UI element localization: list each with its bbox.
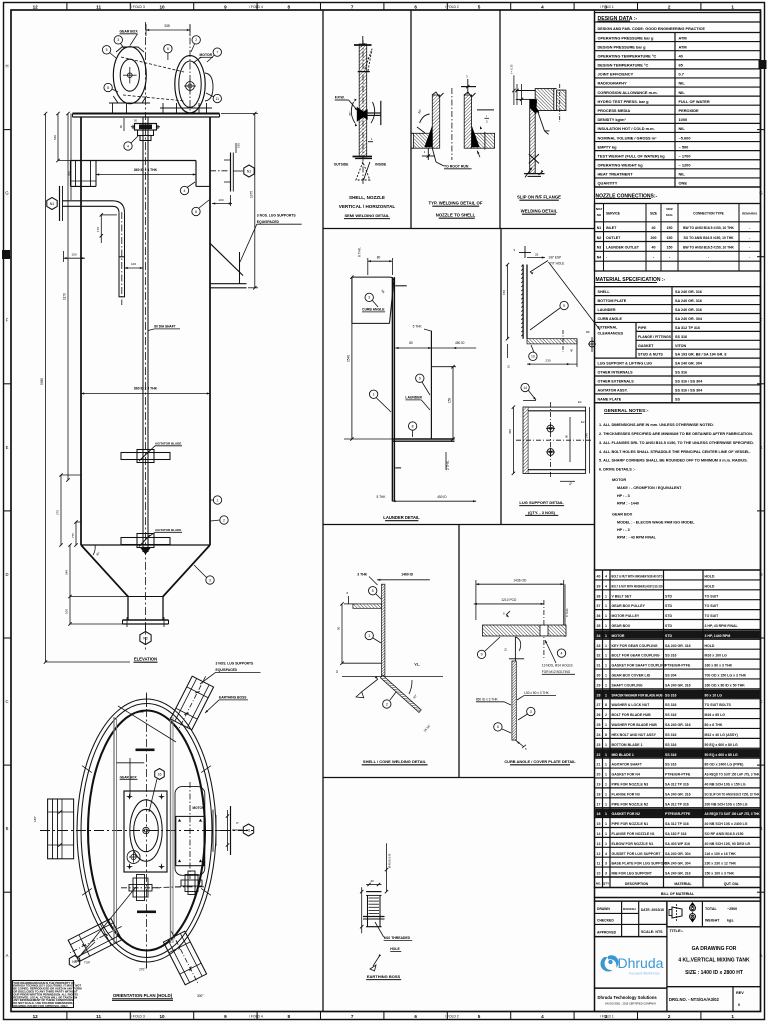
svg-text:3 HP, 1440 RPM: 3 HP, 1440 RPM bbox=[705, 634, 731, 638]
svg-text:NOZ: NOZ bbox=[666, 207, 673, 211]
svg-text:INSIDE: INSIDE bbox=[375, 163, 387, 167]
svg-text:GEAR BOX COVER LID: GEAR BOX COVER LID bbox=[612, 674, 651, 678]
svg-text:CLEARANCES: CLEARANCES bbox=[598, 331, 624, 335]
svg-text:1: 1 bbox=[605, 674, 607, 678]
svg-text:50 EQ x 600 x 80 LG: 50 EQ x 600 x 80 LG bbox=[705, 753, 739, 757]
svg-text:4: 4 bbox=[184, 189, 186, 193]
plan: small tick arrows on rings bbox=[201, 888, 211, 895]
plan: small bolt circle lower-left of gearbox bbox=[127, 851, 140, 864]
svg-text:RAKESH: RAKESH bbox=[623, 907, 636, 911]
svg-text:APPROVED: APPROVED bbox=[597, 931, 617, 935]
plan: lug support bottom-right bbox=[161, 926, 210, 990]
svg-text:DESIGN TEMPERATURE °C: DESIGN TEMPERATURE °C bbox=[598, 63, 649, 68]
svg-text:F: F bbox=[6, 318, 9, 323]
svg-text:SS 316: SS 316 bbox=[665, 693, 677, 697]
svg-text:GASKET FOR N4: GASKET FOR N4 bbox=[612, 773, 640, 777]
svg-text:~ 1200: ~ 1200 bbox=[679, 163, 691, 168]
svg-text:REV: REV bbox=[736, 991, 744, 995]
svg-text:G: G bbox=[759, 191, 762, 196]
svg-text:SA 240 GR. 316: SA 240 GR. 316 bbox=[675, 308, 702, 312]
svg-text:28: 28 bbox=[597, 693, 601, 697]
svg-text:11: 11 bbox=[597, 862, 601, 866]
svg-text:3 NOS. LUG SUPPORTS: 3 NOS. LUG SUPPORTS bbox=[257, 213, 297, 217]
svg-text:CONNECTION TYPE: CONNECTION TYPE bbox=[693, 212, 724, 216]
left zone letters bbox=[4, 129, 12, 131]
svg-text:150: 150 bbox=[71, 252, 76, 256]
svg-text:40 NB SCH 10S x 150 LG: 40 NB SCH 10S x 150 LG bbox=[705, 782, 746, 786]
svg-text:1000: 1000 bbox=[679, 117, 688, 122]
svg-text:38: 38 bbox=[597, 594, 601, 598]
plan: pulley coupling groups bottom bbox=[121, 871, 206, 901]
svg-text:3: 3 bbox=[530, 710, 532, 714]
svg-text:80 DIA SHAFT: 80 DIA SHAFT bbox=[154, 325, 175, 329]
svg-text:SHELL, NOZZLE: SHELL, NOZZLE bbox=[349, 195, 385, 200]
svg-text:t = 6.35: t = 6.35 bbox=[510, 64, 514, 74]
svg-text:SA 240 GR. 316: SA 240 GR. 316 bbox=[665, 683, 691, 687]
svg-text:R6: R6 bbox=[586, 330, 590, 334]
svg-text:-: - bbox=[749, 236, 750, 240]
svg-text:ORIENTATION PLAN (HOLD): ORIENTATION PLAN (HOLD) bbox=[113, 993, 173, 998]
svg-text:FOR M12 BOLTING: FOR M12 BOLTING bbox=[542, 670, 571, 674]
svg-text:TITLE:-: TITLE:- bbox=[670, 928, 684, 933]
svg-text:18: 18 bbox=[597, 792, 601, 796]
svg-text:SPACER WASHER FOR BLADE HUB: SPACER WASHER FOR BLADE HUB bbox=[612, 693, 663, 697]
elevation: lug support bracket right wall bbox=[210, 243, 243, 275]
svg-text:ONE: ONE bbox=[679, 181, 688, 186]
svg-text:CURB ANGLE / COVER PLATE DETAI: CURB ANGLE / COVER PLATE DETAIL bbox=[504, 759, 576, 764]
svg-text:NOMINAL VOLUME / GROSS m³: NOMINAL VOLUME / GROSS m³ bbox=[598, 135, 658, 140]
svg-text:17: 17 bbox=[597, 802, 601, 806]
svg-text:EMPTY kg: EMPTY kg bbox=[598, 144, 618, 149]
elevation: drive belt dashed lines bbox=[121, 57, 184, 72]
svg-text:335: 335 bbox=[164, 24, 170, 28]
svg-text:SA 240 GR. 316: SA 240 GR. 316 bbox=[665, 792, 691, 796]
svg-text:1460 ID: 1460 ID bbox=[401, 573, 413, 577]
svg-text:200 NB SCH 10S x 150 LG: 200 NB SCH 10S x 150 LG bbox=[705, 802, 748, 806]
svg-text:9: 9 bbox=[481, 653, 483, 657]
elevation: shell walls bbox=[80, 117, 82, 545]
svg-text:1: 1 bbox=[731, 5, 734, 10]
svg-text:100: 100 bbox=[65, 609, 69, 614]
svg-text:3: 3 bbox=[209, 578, 211, 582]
plan: diagonal leader across upper circle bbox=[118, 706, 176, 742]
svg-text:24: 24 bbox=[597, 733, 601, 737]
detail: launder detail bbox=[344, 247, 476, 502]
svg-text:BW TO ANSI B16.5 #150, 10 THK: BW TO ANSI B16.5 #150, 10 THK bbox=[683, 246, 734, 250]
svg-text:E: E bbox=[6, 445, 9, 450]
svg-text:OUTLET: OUTLET bbox=[606, 236, 621, 240]
company logo box bbox=[595, 937, 667, 989]
svg-text:kgs.: kgs. bbox=[727, 919, 734, 923]
inlet flange left bbox=[59, 186, 61, 221]
svg-text:16: 16 bbox=[597, 812, 601, 816]
svg-text:300°: 300° bbox=[197, 994, 204, 998]
svg-text:SS: SS bbox=[675, 397, 680, 401]
svg-text:SCALE: NTS: SCALE: NTS bbox=[641, 930, 663, 934]
svg-text:12: 12 bbox=[597, 852, 601, 856]
property note block bottom-left bbox=[13, 981, 83, 1009]
svg-text:BOTTOM PLATE: BOTTOM PLATE bbox=[598, 299, 627, 303]
svg-text:HOLD: HOLD bbox=[705, 575, 715, 579]
svg-text:/ FOLD 4: / FOLD 4 bbox=[249, 1015, 263, 1019]
plan: right nozzle flange stub bbox=[213, 806, 231, 855]
elevation: agitator blade lower bbox=[121, 528, 182, 555]
svg-text:BOLT & NUT WITH WASHER M10x40: BOLT & NUT WITH WASHER M10x40 STD bbox=[612, 575, 663, 579]
svg-text:34: 34 bbox=[597, 634, 601, 638]
svg-text:SHELL: SHELL bbox=[598, 290, 611, 294]
svg-text:HP : - 3: HP : - 3 bbox=[617, 494, 630, 498]
plan: motor rounded rect bbox=[175, 787, 205, 876]
svg-text:RADIOGRAPHY: RADIOGRAPHY bbox=[598, 81, 628, 86]
svg-text:12: 12 bbox=[33, 1014, 39, 1019]
svg-text:860 ID x 3 THK: 860 ID x 3 THK bbox=[134, 168, 158, 172]
detail: shell nozzle seam welding bbox=[334, 36, 387, 185]
svg-text:TO SUIT: TO SUIT bbox=[705, 614, 720, 618]
svg-text:1: 1 bbox=[605, 773, 607, 777]
svg-text:BASE PLATE FOR LUG SUPPORT: BASE PLATE FOR LUG SUPPORT bbox=[612, 862, 669, 866]
svg-text:270°: 270° bbox=[139, 968, 146, 972]
elevation: right dim chain 1975 bbox=[254, 114, 256, 288]
elevation: top plate bbox=[73, 113, 220, 115]
svg-text:MODEL : - ELECON WAGE PAM IGO: MODEL : - ELECON WAGE PAM IGO MODEL bbox=[617, 521, 695, 525]
svg-text:240: 240 bbox=[584, 433, 588, 438]
elevation: inlet dip pipe N1 with elbow bbox=[62, 200, 113, 202]
svg-text:M10 THREADED: M10 THREADED bbox=[384, 936, 411, 940]
svg-text:4: 4 bbox=[561, 651, 563, 655]
svg-text:HOLD: HOLD bbox=[705, 584, 715, 588]
svg-text:45: 45 bbox=[570, 348, 574, 352]
svg-text:4: 4 bbox=[541, 1014, 544, 1019]
svg-text:GA DRAWING FOR: GA DRAWING FOR bbox=[692, 946, 737, 952]
plan: outer rings bbox=[77, 699, 216, 962]
svg-text:RPM : - 43 RPM FINAL: RPM : - 43 RPM FINAL bbox=[617, 536, 657, 540]
svg-text:INSULATION HOT / COLD m.m.: INSULATION HOT / COLD m.m. bbox=[598, 126, 655, 131]
plan: centre lines bbox=[146, 694, 148, 968]
dim 100 below elbow bbox=[125, 267, 144, 269]
svg-text:1975: 1975 bbox=[249, 191, 253, 198]
svg-text:450: 450 bbox=[508, 429, 512, 434]
svg-text:WEIGHT: WEIGHT bbox=[705, 919, 720, 923]
elevation: stuffing box gland bbox=[135, 124, 157, 131]
svg-text:SS 316 / SS 304: SS 316 / SS 304 bbox=[675, 380, 703, 384]
svg-text:N2: N2 bbox=[597, 236, 602, 240]
svg-text:SS 316: SS 316 bbox=[665, 713, 677, 717]
svg-text:NOZZLE TO SHELL: NOZZLE TO SHELL bbox=[436, 213, 476, 218]
svg-text:6. DRIVE DETAILS :-: 6. DRIVE DETAILS :- bbox=[599, 468, 636, 472]
svg-text:E3: E3 bbox=[578, 400, 582, 404]
detail: shell cone welding detail bbox=[335, 573, 443, 733]
svg-text:DESCRIPTION: DESCRIPTION bbox=[625, 882, 649, 886]
elevation: agitator blade upper bbox=[121, 442, 182, 463]
svg-text:40: 40 bbox=[370, 879, 374, 883]
svg-text:/ FOLD 3: / FOLD 3 bbox=[131, 5, 145, 9]
svg-text:OTHER INTERNALS: OTHER INTERNALS bbox=[598, 371, 634, 375]
svg-text:SS 316: SS 316 bbox=[665, 753, 677, 757]
elevation: left dim chains bbox=[45, 114, 47, 663]
svg-text:230 x 230 x 12 THK: 230 x 230 x 12 THK bbox=[705, 862, 737, 866]
svg-text:80 OD x 2400 LG (PIPE): 80 OD x 2400 LG (PIPE) bbox=[705, 763, 744, 767]
svg-text:10: 10 bbox=[507, 364, 511, 368]
svg-text:Dhruda Technology Solutions: Dhruda Technology Solutions bbox=[598, 995, 658, 1000]
bill of material banner bbox=[595, 888, 761, 898]
svg-text:36: 36 bbox=[597, 614, 601, 618]
svg-text:11: 11 bbox=[96, 5, 101, 10]
detail: curb angle cover plate detail bbox=[474, 578, 575, 751]
svg-text:WASHER & LOCK NUT: WASHER & LOCK NUT bbox=[612, 703, 651, 707]
svg-text:/ FOLD 3: / FOLD 3 bbox=[131, 1015, 145, 1019]
svg-text:11: 11 bbox=[96, 1014, 101, 1019]
svg-text:8: 8 bbox=[288, 5, 291, 10]
elevation: drive support posts bbox=[112, 103, 114, 114]
svg-text:HEX BOLT AND NUT ASSY: HEX BOLT AND NUT ASSY bbox=[612, 733, 657, 737]
bottom ruler band bbox=[66, 1012, 68, 1020]
svg-text:DESIGN PRESSURE bar g: DESIGN PRESSURE bar g bbox=[598, 44, 647, 49]
svg-text:100: 100 bbox=[218, 198, 223, 202]
svg-text:WELDING DETAIL: WELDING DETAIL bbox=[521, 209, 558, 214]
svg-text:31: 31 bbox=[597, 664, 601, 668]
svg-text:AN ISO 9001 : 2015 CERTIFIED C: AN ISO 9001 : 2015 CERTIFIED COMPANY bbox=[605, 1002, 656, 1006]
svg-text:GEAR BOX: GEAR BOX bbox=[612, 624, 631, 628]
svg-text:M16 x 65 LG: M16 x 65 LG bbox=[705, 713, 726, 717]
svg-text:1: 1 bbox=[605, 782, 607, 786]
svg-text:40: 40 bbox=[652, 226, 656, 230]
svg-text:40: 40 bbox=[679, 53, 683, 58]
dim 170 dip pipe bbox=[100, 214, 102, 243]
elevation: cone bbox=[81, 545, 128, 597]
detail: lug support detail bbox=[502, 246, 600, 486]
svg-text:CORROSION ALLOWANCE m.m.: CORROSION ALLOWANCE m.m. bbox=[598, 90, 658, 95]
svg-text:4: 4 bbox=[605, 575, 607, 579]
balloon 4 at launder right end bbox=[180, 186, 188, 194]
svg-text:5: 5 bbox=[372, 589, 374, 593]
svg-text:SA 312 TP 316: SA 312 TP 316 bbox=[665, 782, 689, 786]
svg-text:8: 8 bbox=[412, 424, 414, 428]
svg-text:N1: N1 bbox=[246, 828, 251, 832]
svg-text:50: 50 bbox=[337, 626, 341, 630]
svg-text:TEST WEIGHT (FULL OF WATER) kg: TEST WEIGHT (FULL OF WATER) kg bbox=[598, 153, 666, 158]
svg-text:TOP: TOP bbox=[84, 961, 90, 965]
svg-text:1: 1 bbox=[605, 614, 607, 618]
svg-text:GENERAL NOTES:-: GENERAL NOTES:- bbox=[604, 408, 649, 414]
svg-text:~ 1700: ~ 1700 bbox=[679, 153, 691, 158]
svg-text:/ FOLD 2: / FOLD 2 bbox=[445, 5, 459, 9]
top ruler band bbox=[66, 3, 68, 11]
plan: launder walls vertical grey bbox=[113, 717, 115, 943]
elevation: N10 side nozzle right bbox=[210, 170, 230, 172]
svg-text:MOTOR: MOTOR bbox=[193, 806, 206, 810]
svg-text:NO.: NO. bbox=[596, 882, 602, 886]
svg-text:GASKET FOR N2: GASKET FOR N2 bbox=[612, 812, 640, 816]
svg-text:SS 316: SS 316 bbox=[665, 733, 677, 737]
svg-text:MATERIAL: MATERIAL bbox=[674, 882, 691, 886]
plan: hex balloon 16 bbox=[155, 769, 165, 780]
svg-text:OUTSIDE: OUTSIDE bbox=[334, 163, 349, 167]
svg-text:3: 3 bbox=[605, 872, 607, 876]
svg-text:OPERATING TEMPERATURE °C: OPERATING TEMPERATURE °C bbox=[598, 53, 657, 58]
svg-text:80: 80 bbox=[377, 256, 381, 260]
svg-text:1: 1 bbox=[605, 604, 607, 608]
Dhruda logo mark bbox=[600, 955, 663, 976]
svg-text:SEMI WELDING DETAIL: SEMI WELDING DETAIL bbox=[344, 213, 390, 218]
svg-text:CURB ANGLE: CURB ANGLE bbox=[598, 317, 623, 321]
plan: line above gearbox bbox=[117, 762, 145, 764]
svg-text:2540: 2540 bbox=[346, 355, 350, 362]
svg-text:SS 316 / SS 304: SS 316 / SS 304 bbox=[675, 388, 703, 392]
svg-text:EQUISPACED: EQUISPACED bbox=[216, 668, 238, 672]
svg-text:6: 6 bbox=[414, 1014, 417, 1019]
svg-text:860 ID x 3 THK: 860 ID x 3 THK bbox=[134, 387, 158, 391]
svg-text:QUANTITY: QUANTITY bbox=[598, 181, 618, 186]
svg-text:1: 1 bbox=[368, 634, 370, 638]
svg-text:SHELL / CONE WELDING DETAIL: SHELL / CONE WELDING DETAIL bbox=[363, 759, 427, 764]
svg-text:20: 20 bbox=[597, 773, 601, 777]
svg-text:SS 316: SS 316 bbox=[665, 763, 677, 767]
svg-text:-: - bbox=[749, 256, 750, 260]
svg-text:180°: 180° bbox=[33, 815, 37, 822]
svg-text:PROCESS MEDIA: PROCESS MEDIA bbox=[598, 108, 631, 113]
svg-text:13: 13 bbox=[597, 842, 601, 846]
svg-text:8: 8 bbox=[288, 1014, 291, 1019]
svg-text:150: 150 bbox=[667, 246, 673, 250]
svg-text:STUD & NUTS: STUD & NUTS bbox=[638, 353, 663, 357]
svg-text:A: A bbox=[760, 953, 763, 958]
svg-text:2: 2 bbox=[386, 702, 388, 706]
svg-text:AGITATOR SHAFT: AGITATOR SHAFT bbox=[612, 763, 643, 767]
svg-text:DRAWING ISSUED FOR APPROVAL ON: DRAWING ISSUED FOR APPROVAL ONLY. bbox=[13, 1004, 68, 1008]
svg-text:80: 80 bbox=[409, 341, 413, 345]
bom header row bbox=[595, 877, 761, 888]
svg-text:90: 90 bbox=[565, 434, 569, 438]
svg-text:16: 16 bbox=[158, 772, 162, 776]
svg-text:INLET: INLET bbox=[606, 226, 617, 230]
svg-text:ATM: ATM bbox=[679, 35, 687, 40]
svg-text:8: 8 bbox=[195, 210, 197, 214]
svg-text:FLANGE FOR N3: FLANGE FOR N3 bbox=[612, 792, 640, 796]
svg-text:40: 40 bbox=[652, 246, 656, 250]
svg-text:1: 1 bbox=[373, 393, 375, 397]
svg-text:35: 35 bbox=[597, 624, 601, 628]
svg-text:SA 193 GR. B8 / SA 194 GR. 8: SA 193 GR. B8 / SA 194 GR. 8 bbox=[675, 353, 726, 357]
svg-text:1: 1 bbox=[605, 664, 607, 668]
svg-text:VITON: VITON bbox=[675, 344, 687, 348]
svg-text:2: 2 bbox=[223, 518, 225, 522]
svg-text:30: 30 bbox=[597, 674, 601, 678]
svg-text:SIZE: SIZE bbox=[650, 212, 657, 216]
svg-text:ELEVATION: ELEVATION bbox=[134, 657, 157, 662]
svg-text:ATM: ATM bbox=[679, 44, 687, 49]
svg-text:1/8" ESP: 1/8" ESP bbox=[548, 256, 561, 260]
svg-text:2: 2 bbox=[605, 713, 607, 717]
svg-text:5. ALL SHARP CORNERS SHALL BE: 5. ALL SHARP CORNERS SHALL BE ROUNDED OF… bbox=[599, 459, 748, 463]
svg-text:540: 540 bbox=[53, 135, 57, 140]
svg-text:21: 21 bbox=[597, 763, 601, 767]
svg-text:DESIGN AND FAB. CODE: GOOD EN: DESIGN AND FAB. CODE: GOOD ENGINEERING P… bbox=[598, 27, 706, 31]
svg-text:2: 2 bbox=[668, 1014, 671, 1019]
svg-text:4: 4 bbox=[605, 852, 607, 856]
svg-text:LAUNDER OUTLET: LAUNDER OUTLET bbox=[606, 246, 640, 250]
svg-text:H: H bbox=[5, 64, 8, 69]
centering marks bbox=[2, 250, 10, 259]
svg-text:450 ID: 450 ID bbox=[455, 341, 465, 345]
svg-text:/ FOLD 4: / FOLD 4 bbox=[249, 5, 263, 9]
svg-text:9: 9 bbox=[224, 5, 227, 10]
dim 775 bracket bbox=[75, 522, 77, 545]
svg-text:150 x 100 x 3 THK: 150 x 100 x 3 THK bbox=[705, 872, 735, 876]
svg-text:100: 100 bbox=[131, 262, 136, 266]
svg-text:MOTOR: MOTOR bbox=[200, 53, 213, 57]
svg-text:LUG SUPPORT DETAIL: LUG SUPPORT DETAIL bbox=[519, 500, 564, 505]
elevation balloons right side bbox=[213, 496, 221, 504]
general notes block bbox=[595, 403, 761, 570]
svg-text:L50 x 50 x 3 THK: L50 x 50 x 3 THK bbox=[524, 691, 549, 695]
svg-text:STD: STD bbox=[665, 604, 672, 608]
svg-text:SIZE : 1400 ID x 2800 HT: SIZE : 1400 ID x 2800 HT bbox=[685, 970, 743, 976]
svg-text:F.P.W.: F.P.W. bbox=[335, 96, 345, 100]
svg-text:4: 4 bbox=[605, 584, 607, 588]
elevation: outlet neck bbox=[127, 597, 129, 621]
svg-text:10: 10 bbox=[597, 872, 601, 876]
svg-text:2: 2 bbox=[195, 38, 197, 42]
svg-text:SLIP ON R/F FLANGE: SLIP ON R/F FLANGE bbox=[517, 195, 561, 200]
svg-text:AGITATOR BLADE: AGITATOR BLADE bbox=[155, 528, 181, 532]
svg-text:NIL: NIL bbox=[679, 126, 686, 131]
svg-text:AS REQD TO SUIT 150 LAP JTS, 3: AS REQD TO SUIT 150 LAP JTS, 3 THK bbox=[705, 773, 760, 777]
svg-text:1436 OD: 1436 OD bbox=[513, 578, 527, 582]
svg-text:SA 240 GR. 304: SA 240 GR. 304 bbox=[665, 862, 691, 866]
svg-text:1: 1 bbox=[605, 644, 607, 648]
svg-text:SA 312 TP 316: SA 312 TP 316 bbox=[665, 822, 689, 826]
svg-text:Ø40 B.S.R.: Ø40 B.S.R. bbox=[388, 853, 392, 868]
elevation: motor centre line bbox=[189, 25, 191, 114]
company name row bbox=[595, 988, 667, 1011]
svg-text:GEAR BOX: GEAR BOX bbox=[612, 513, 633, 517]
svg-text:SS 316: SS 316 bbox=[675, 371, 687, 375]
svg-text:1: 1 bbox=[605, 654, 607, 658]
svg-text:TYP. WELDING DETAIL OF: TYP. WELDING DETAIL OF bbox=[429, 201, 483, 206]
svg-text:TO ROOT RUN: TO ROOT RUN bbox=[444, 164, 469, 168]
svg-text:REMARKS: REMARKS bbox=[742, 212, 757, 216]
svg-text:-: - bbox=[708, 256, 709, 260]
svg-text:1: 1 bbox=[605, 693, 607, 697]
svg-text:WASHER FOR BLADE HUB: WASHER FOR BLADE HUB bbox=[612, 723, 658, 727]
svg-text:-: - bbox=[749, 226, 750, 230]
svg-text:N1: N1 bbox=[247, 169, 252, 173]
svg-text:~2500: ~2500 bbox=[727, 907, 737, 911]
svg-text:7: 7 bbox=[351, 1014, 354, 1019]
svg-text:10: 10 bbox=[531, 355, 535, 359]
svg-text:3 NOS. LUG SUPPORTS: 3 NOS. LUG SUPPORTS bbox=[216, 662, 255, 666]
svg-text:VERTICAL / HORIZONTAL: VERTICAL / HORIZONTAL bbox=[339, 204, 396, 209]
svg-text:PTFE/GR-PTFE: PTFE/GR-PTFE bbox=[665, 773, 691, 777]
cone angle 30 bbox=[93, 545, 95, 555]
svg-text:8: 8 bbox=[107, 86, 109, 90]
svg-text:5: 5 bbox=[106, 48, 108, 52]
svg-text:(QTY. - 3 NOS): (QTY. - 3 NOS) bbox=[528, 510, 556, 515]
svg-text:850 ID x 3 THK: 850 ID x 3 THK bbox=[476, 697, 499, 701]
svg-text:NOZ: NOZ bbox=[596, 207, 603, 211]
svg-text:PEROXIDE: PEROXIDE bbox=[679, 108, 700, 113]
svg-text:160 OD x 80 ID x 50 THK: 160 OD x 80 ID x 50 THK bbox=[705, 683, 746, 687]
svg-text:SS 316: SS 316 bbox=[675, 335, 687, 339]
elevation: shell-cone junction bbox=[81, 544, 210, 546]
svg-text:10: 10 bbox=[159, 5, 165, 10]
svg-text:N3: N3 bbox=[597, 246, 602, 250]
svg-text:1: 1 bbox=[605, 812, 607, 816]
svg-text:6 THK.: 6 THK. bbox=[358, 247, 362, 257]
elevation: launder trough at top bbox=[71, 160, 197, 162]
svg-text:MOTOR PULLEY: MOTOR PULLEY bbox=[612, 614, 640, 618]
svg-text:STD: STD bbox=[665, 634, 672, 638]
